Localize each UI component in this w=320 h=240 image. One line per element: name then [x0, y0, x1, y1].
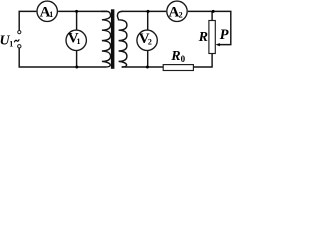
ammeter A1 — [37, 1, 57, 21]
svg-text:R0: R0 — [170, 49, 185, 64]
wire — [76, 11, 78, 29]
wire — [58, 10, 107, 12]
junction node bottom of V2 — [146, 66, 149, 69]
wire — [147, 51, 149, 67]
junction node top of V1 — [75, 10, 78, 13]
junction node bottom of V1 — [75, 66, 78, 69]
svg-text:R: R — [198, 30, 208, 45]
svg-text:1: 1 — [77, 37, 81, 46]
wire — [188, 11, 231, 44]
transformer core — [111, 9, 115, 69]
wire — [19, 48, 97, 67]
ammeter A2 — [167, 1, 187, 21]
wire — [147, 11, 149, 29]
wire — [76, 51, 78, 67]
voltmeter V2 — [137, 30, 157, 50]
transformer primary coil — [97, 11, 111, 67]
junction node top of R — [212, 10, 215, 13]
rheostat R body — [209, 21, 215, 54]
wire — [122, 10, 167, 12]
svg-text:2: 2 — [148, 37, 152, 46]
voltmeter V1 — [66, 30, 86, 50]
source U1 top terminal — [18, 30, 21, 33]
svg-text:P: P — [220, 27, 229, 43]
wire — [211, 11, 213, 20]
source U1 bottom terminal — [18, 45, 21, 48]
transformer secondary coil — [117, 11, 127, 67]
svg-text:2: 2 — [179, 10, 183, 19]
rheostat wiper arrowhead P — [216, 43, 220, 46]
svg-text:1: 1 — [49, 10, 53, 19]
svg-text:U1: U1 — [0, 34, 13, 49]
wire — [19, 11, 36, 30]
wire — [122, 66, 163, 68]
wire — [194, 54, 212, 68]
junction node top of V2 — [146, 10, 149, 13]
resistor R0 body — [163, 65, 193, 71]
AC tilde — [14, 39, 19, 42]
